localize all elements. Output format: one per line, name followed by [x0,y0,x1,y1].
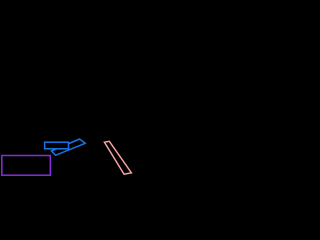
pink parallelogram [104,141,131,174]
purple rectangle [2,156,51,176]
blue parallelogram [52,139,86,155]
blue rectangle [45,142,69,149]
